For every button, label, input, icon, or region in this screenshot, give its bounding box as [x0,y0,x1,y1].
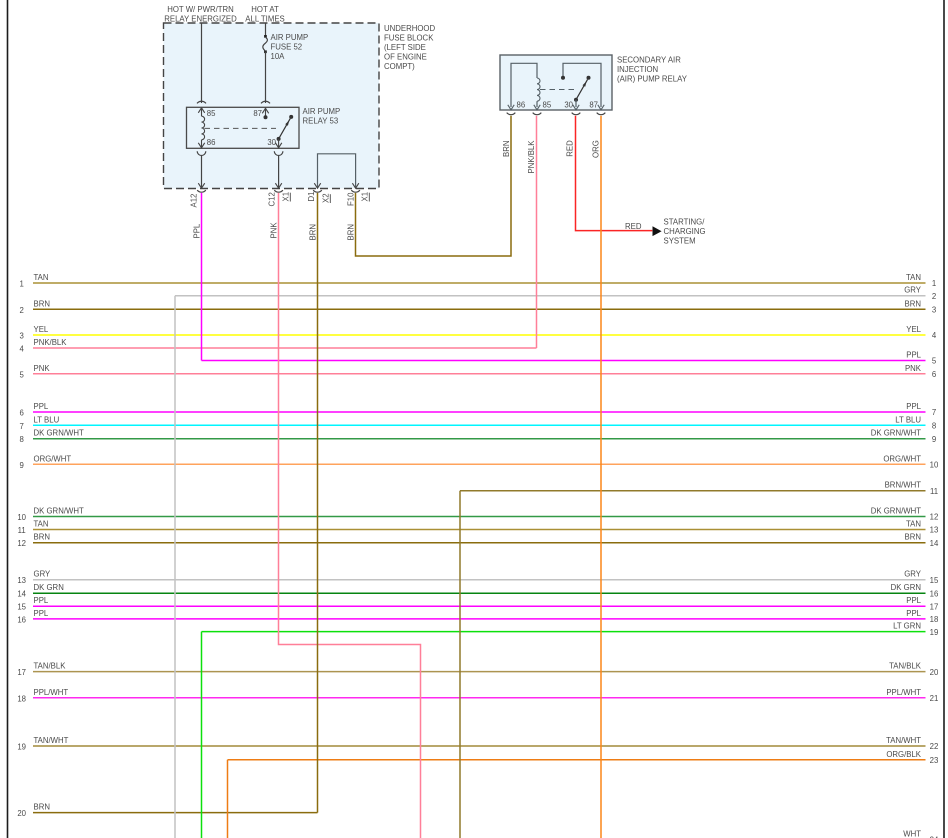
wire PPL from connector A12 to row 5 [201,193,203,361]
svg-text:BRN: BRN [905,299,921,308]
relay coil branch pin 86 to 85 [511,63,537,107]
svg-text:FUSE BLOCK: FUSE BLOCK [384,34,434,43]
svg-text:11: 11 [930,487,938,496]
wire from HOT AT ALL TIMES feed to fuse 52 [265,23,267,37]
wire PNK/BLK from secondary relay pin 85 to row 4 [536,116,538,348]
label STARTING/CHARGING SYSTEM [664,218,706,246]
svg-text:3: 3 [20,332,24,341]
svg-text:F10: F10 [347,192,356,206]
svg-text:DK GRN/WHT: DK GRN/WHT [34,429,84,438]
svg-text:PPL: PPL [906,609,921,618]
svg-text:X1: X1 [361,192,370,202]
wire BRN from connector D1 to row 20 [317,193,319,813]
wire DK GRN/WHT row (left 8 / right 9) [33,438,926,440]
svg-text:YEL: YEL [34,325,49,334]
connector arc below relay pin 30 [274,151,283,155]
svg-text:HOT W/ PWR/TRN: HOT W/ PWR/TRN [167,5,234,14]
svg-text:85: 85 [543,100,552,109]
svg-text:5: 5 [20,370,25,379]
svg-text:PPL: PPL [34,596,49,605]
svg-text:FUSE 52: FUSE 52 [271,43,303,52]
wire ORG/BLK row (left - / right 23) [228,759,926,761]
svg-text:10A: 10A [271,52,286,61]
svg-text:OF ENGINE: OF ENGINE [384,53,427,62]
connector arc F10 [351,190,360,192]
wire PPL row (left 6 / right 7) [33,411,926,413]
svg-text:7: 7 [932,408,936,417]
wire ORG from secondary relay pin 87 [600,116,602,838]
svg-text:DK GRN/WHT: DK GRN/WHT [34,507,84,516]
svg-text:10: 10 [930,461,939,470]
relay 53 pin 86 arrow [201,140,203,148]
connector arc above relay pin 85 [197,101,206,103]
svg-text:ALL TIMES: ALL TIMES [245,14,284,23]
svg-text:WHT: WHT [903,829,921,838]
connector arc above relay pin 87 [261,101,270,103]
svg-text:20: 20 [17,809,26,818]
svg-text:14: 14 [930,539,939,548]
wire TAN row (left 1 / right 1) [33,282,926,284]
svg-text:C12: C12 [268,192,277,206]
svg-text:SYSTEM: SYSTEM [664,237,696,246]
svg-text:15: 15 [17,603,26,612]
secondary relay coil [537,78,540,101]
svg-text:STARTING/: STARTING/ [664,218,706,227]
svg-text:D1: D1 [307,192,316,202]
wire YEL row (left 3 / right 4) [33,334,926,336]
svg-text:22: 22 [930,742,939,751]
svg-text:RELAY 53: RELAY 53 [303,117,339,126]
svg-text:BRN: BRN [309,224,318,240]
svg-text:ORG/WHT: ORG/WHT [34,454,72,463]
connector arc below relay pin 86 [197,151,206,155]
wire PNK from connector C12 down and over [279,193,421,838]
svg-text:GRY: GRY [34,570,52,579]
wire DK GRN row (left 14 / right 16) [33,592,926,594]
relay switch branch to pin 87 [563,63,601,107]
svg-text:1: 1 [20,280,24,289]
wire PPL row (left 15 / right 17) [33,605,926,607]
svg-text:LT BLU: LT BLU [895,415,921,424]
svg-text:PPL: PPL [34,609,49,618]
svg-text:BRN: BRN [502,141,511,157]
svg-text:LT GRN: LT GRN [893,622,921,631]
svg-text:RELAY ENERGIZED: RELAY ENERGIZED [164,14,237,23]
svg-text:TAN: TAN [906,520,921,529]
svg-text:13: 13 [17,576,26,585]
svg-text:19: 19 [930,628,939,637]
svg-text:8: 8 [20,435,24,444]
wire GRY row (left 13 / right 15) [33,579,926,581]
svg-text:87: 87 [589,100,598,109]
svg-text:6: 6 [932,370,936,379]
svg-text:BRN: BRN [34,299,50,308]
svg-text:TAN/BLK: TAN/BLK [34,662,67,671]
svg-text:BRN: BRN [34,533,50,542]
svg-text:UNDERHOOD: UNDERHOOD [384,24,435,33]
svg-text:PPL: PPL [906,596,921,605]
svg-text:11: 11 [18,526,26,535]
wire LT GRN row (left - / right 19) [202,631,926,633]
wire PNK/BLK row (left 4 / right -) [33,347,537,349]
svg-text:BRN: BRN [347,224,356,240]
wire from HOT W/ PWR/TRN feed to relay pin 85 [201,23,203,103]
wire BRN row (left 20 / right -) [33,812,318,814]
svg-text:TAN/WHT: TAN/WHT [34,736,69,745]
svg-text:AIR PUMP: AIR PUMP [271,33,309,42]
svg-text:COMPT): COMPT) [384,62,415,71]
svg-text:YEL: YEL [906,325,921,334]
svg-text:CHARGING: CHARGING [664,227,706,236]
svg-text:SECONDARY AIR: SECONDARY AIR [617,56,681,65]
svg-text:8: 8 [932,422,936,431]
svg-text:PPL/WHT: PPL/WHT [34,688,69,697]
wire BRN/WHT vertical from row 11 [459,491,461,838]
svg-text:PNK: PNK [270,222,279,239]
svg-text:BRN: BRN [905,533,921,542]
secondary air injection (AIR) pump relay box [500,55,612,110]
svg-text:2: 2 [20,306,24,315]
air pump relay 53 box [187,107,300,148]
svg-text:GRY: GRY [904,570,922,579]
wire DK GRN/WHT row (left 10 / right 12) [33,516,926,518]
svg-text:86: 86 [517,100,526,109]
svg-text:17: 17 [17,668,26,677]
svg-text:TAN/BLK: TAN/BLK [889,662,922,671]
svg-text:PPL: PPL [906,351,921,360]
svg-text:DK GRN: DK GRN [891,583,921,592]
wire relay pin 86 to fuse block connector A12 [201,156,203,188]
wire PNK row (left 5 / right 6) [33,373,926,375]
wire relay pin 30 to fuse block connector C12 [278,156,280,188]
connector arc D1 [313,190,322,192]
relay 53 dashed link [205,127,277,129]
underhood fuse block (dashed box) [164,23,380,189]
wire TAN row (left 11 / right 13) [33,529,926,531]
wire LT BLU row (left 7 / right 8) [33,424,926,426]
wire PPL row (left - / right 5) [202,360,926,362]
svg-text:(LEFT SIDE: (LEFT SIDE [384,43,426,52]
svg-text:ORG/WHT: ORG/WHT [883,454,921,463]
secondary AIR pump relay label [617,56,688,84]
svg-text:30: 30 [267,138,276,147]
svg-text:85: 85 [207,109,216,118]
svg-text:4: 4 [20,345,25,354]
wire GRY vertical from row 2 [174,296,176,838]
wire RED from pin 30 to starting/charging system [576,116,653,231]
svg-text:17: 17 [930,602,939,611]
svg-text:16: 16 [930,589,939,598]
svg-text:ORG: ORG [591,140,600,158]
connector arcs below secondary relay pins [507,113,516,115]
svg-text:16: 16 [17,615,26,624]
svg-text:LT BLU: LT BLU [34,415,60,424]
wire BRN from connector F10 to secondary relay pin 86 [356,116,512,256]
dashed link coil to blade [540,89,576,91]
svg-text:13: 13 [930,526,939,535]
svg-text:7: 7 [20,422,24,431]
svg-text:INJECTION: INJECTION [617,65,658,74]
svg-text:TAN/WHT: TAN/WHT [886,736,921,745]
svg-text:5: 5 [932,357,937,366]
svg-text:PPL: PPL [193,223,202,238]
right page border [943,0,945,838]
svg-text:ORG/BLK: ORG/BLK [886,750,921,759]
svg-text:18: 18 [17,694,26,703]
svg-text:1: 1 [932,279,936,288]
svg-text:18: 18 [930,615,939,624]
wire BRN row (left 2 / right 3) [33,308,926,310]
svg-text:PPL: PPL [906,402,921,411]
svg-text:A12: A12 [190,194,199,208]
wire LT GRN vertical from row 19 [201,632,203,838]
svg-text:4: 4 [932,331,937,340]
wire PPL row (left 16 / right 18) [33,618,926,620]
svg-text:6: 6 [20,409,24,418]
connector arc C12 [274,190,283,192]
wire TAN/BLK row (left 17 / right 20) [33,671,926,673]
svg-text:GRY: GRY [904,286,922,295]
wire BRN row (left 12 / right 14) [33,542,926,544]
svg-text:RED: RED [625,222,642,231]
jumper wire between fuse block connectors D1 and F10 [318,154,356,188]
connector arc A12 [197,190,206,192]
relay 53 pin 85 arrow [201,108,203,116]
svg-text:BRN/WHT: BRN/WHT [885,481,922,490]
wire PPL/WHT row (left 18 / right 21) [33,697,926,699]
left page border [7,0,9,838]
svg-text:(AIR) PUMP RELAY: (AIR) PUMP RELAY [617,75,688,84]
pin 30 [575,100,577,107]
svg-text:9: 9 [932,435,936,444]
svg-text:TAN: TAN [34,273,49,282]
svg-text:PPL/WHT: PPL/WHT [886,688,921,697]
svg-text:3: 3 [932,306,936,315]
svg-text:30: 30 [564,100,573,109]
svg-text:PNK/BLK: PNK/BLK [527,140,536,174]
svg-text:12: 12 [930,513,939,522]
wire ORG/WHT row (left 9 / right 10) [33,463,926,465]
svg-text:HOT AT: HOT AT [251,5,279,14]
svg-text:2: 2 [932,292,936,301]
wire BRN/WHT row (left - / right 11) [460,490,926,492]
wire GRY row (left - / right 2) [175,295,926,297]
wire ORG/BLK vertical from row 23 [227,760,229,838]
svg-text:87: 87 [253,109,262,118]
svg-text:PPL: PPL [34,402,49,411]
label UNDERHOOD FUSE BLOCK [384,24,435,71]
arrow to starting/charging system [653,226,662,236]
svg-text:23: 23 [930,756,939,765]
svg-text:15: 15 [930,576,939,585]
svg-text:BRN: BRN [34,803,50,812]
svg-text:12: 12 [17,539,26,548]
svg-text:X1: X1 [282,192,291,202]
svg-text:AIR PUMP: AIR PUMP [303,107,341,116]
svg-text:86: 86 [207,138,216,147]
relay 53 pin 30 arrow [278,139,280,148]
wire from fuse 52 to relay pin 87 [265,52,267,103]
svg-text:DK GRN/WHT: DK GRN/WHT [871,429,921,438]
svg-text:19: 19 [17,743,26,752]
svg-text:X2: X2 [322,193,331,203]
svg-text:20: 20 [930,668,939,677]
svg-text:DK GRN/WHT: DK GRN/WHT [871,507,921,516]
wire TAN/WHT row (left 19 / right 22) [33,745,926,747]
svg-text:PNK: PNK [905,364,922,373]
fuse 52 AIR PUMP 10A [263,33,308,61]
svg-text:RED: RED [566,140,575,157]
svg-text:TAN: TAN [906,273,921,282]
svg-text:10: 10 [17,513,26,522]
svg-text:9: 9 [20,461,24,470]
relay 53 pin 87 contact [265,108,267,116]
relay 53 coil [202,116,205,140]
svg-text:PNK: PNK [34,364,51,373]
svg-text:14: 14 [17,590,26,599]
svg-text:TAN: TAN [34,520,49,529]
svg-text:DK GRN: DK GRN [34,583,64,592]
switch blade [587,76,591,80]
svg-text:PNK/BLK: PNK/BLK [34,338,68,347]
svg-text:21: 21 [930,694,939,703]
relay 53 switch blade [277,137,281,141]
